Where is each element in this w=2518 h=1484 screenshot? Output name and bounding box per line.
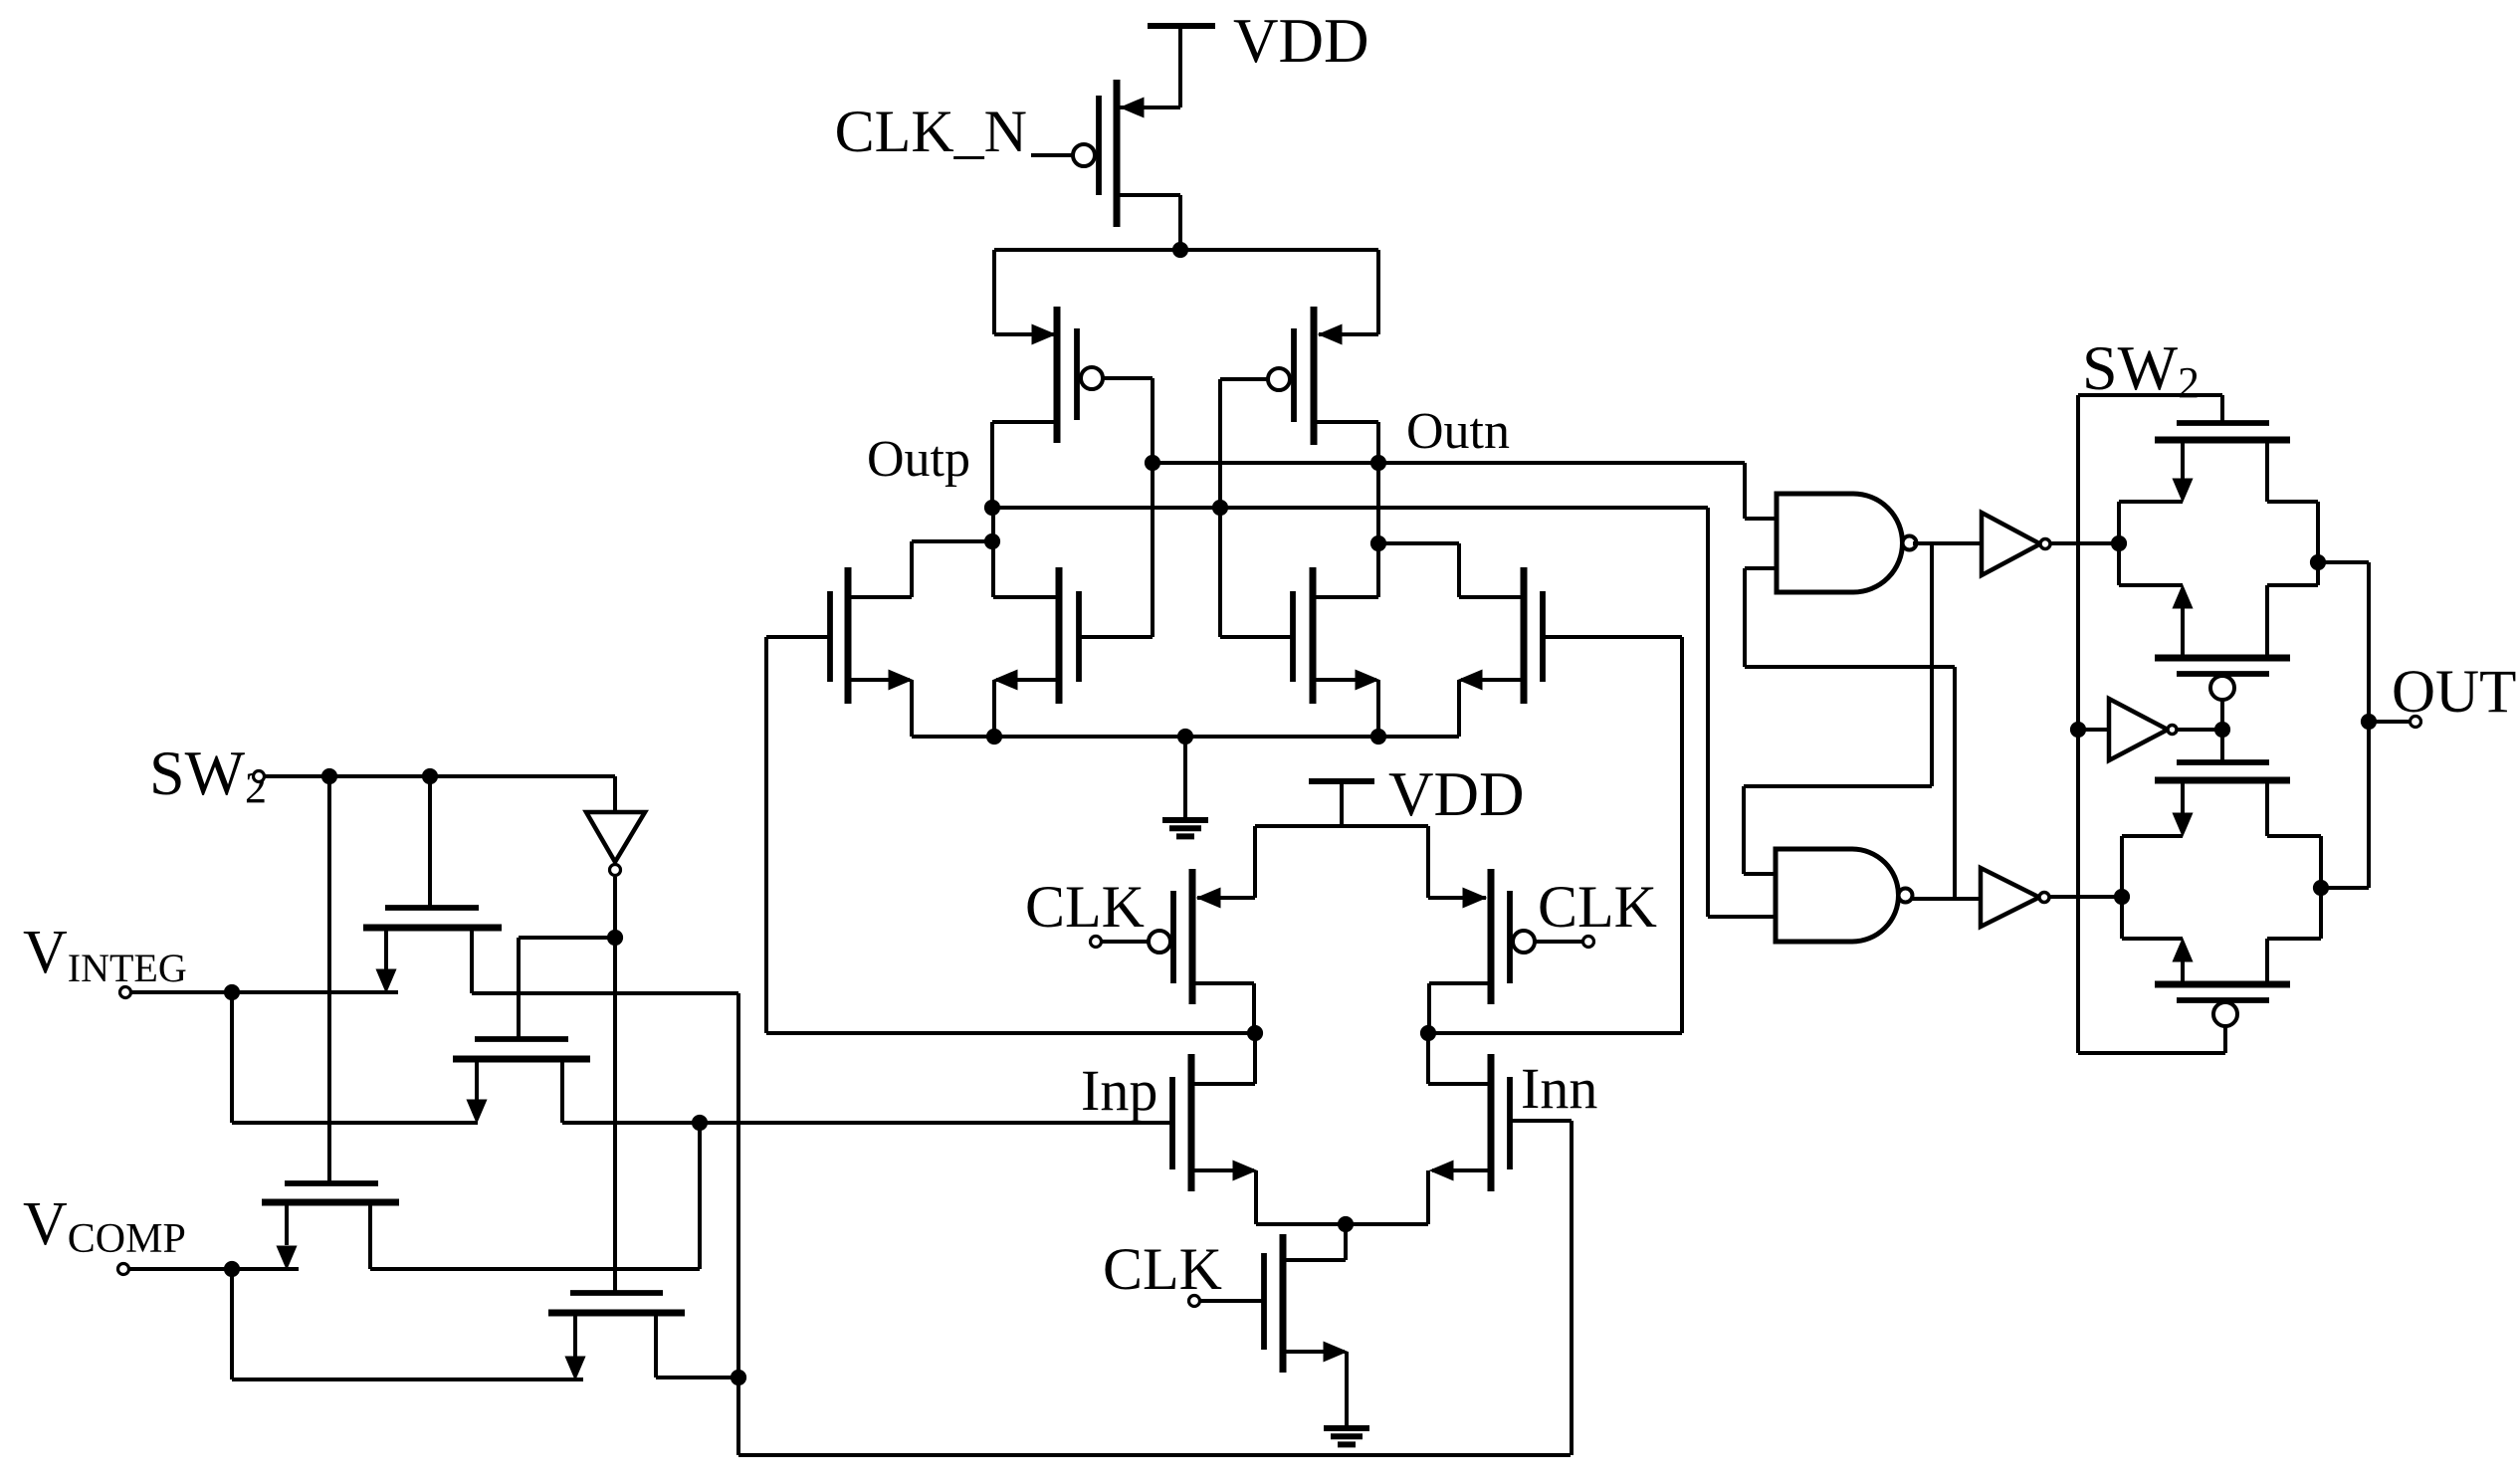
wire U3 out to T-gate 1	[2050, 541, 2119, 545]
node U6 output	[2214, 722, 2229, 737]
wire T-gate 1 out to OUT column	[2318, 560, 2369, 564]
label Inp	[1081, 1058, 1157, 1123]
svg-text:VDD: VDD	[1233, 6, 1369, 76]
wire U4 out to T-gate 2	[2049, 895, 2122, 899]
wire V_INTEG down to M14 source	[232, 992, 478, 1123]
wire OUT column	[2367, 562, 2371, 888]
wire OUT stub	[2369, 720, 2409, 724]
terminal OUT	[2411, 717, 2421, 728]
wire V_COMP down to M16 source	[232, 1269, 583, 1379]
wire Inp net	[562, 1121, 1172, 1125]
label VDD (top)	[1233, 6, 1369, 76]
wire U2 output	[1912, 897, 1981, 901]
label V_INTEG	[23, 919, 187, 990]
node Outn at M8 drain	[1370, 455, 1385, 470]
nand gate U1 (SR latch top)	[1777, 494, 1917, 592]
wire U1 out cross-couple to U2 input A	[1744, 543, 1932, 874]
label CLK_N	[835, 99, 1027, 164]
node SW2 to inverter U6	[2070, 722, 2085, 737]
ground (latch)	[1162, 737, 1208, 836]
svg-text:VDD: VDD	[1388, 759, 1525, 829]
transistor M13 NMOS (V_INTEG to Inn switch)	[363, 776, 738, 993]
node inverter out / T-gate spine	[607, 930, 622, 945]
node source rail left	[986, 729, 1001, 743]
inverter U4 (bottom buffer)	[1981, 868, 2049, 927]
transistor M9 PMOS (CLK_N precharge)	[1073, 80, 1180, 250]
label Inn	[1521, 1056, 1597, 1121]
ground (tail)	[1324, 1428, 1369, 1444]
wire SW2 bus	[265, 774, 615, 778]
label SW2 (left)	[149, 738, 267, 812]
svg-text:CLK_N: CLK_N	[835, 99, 1027, 164]
svg-text:CLK: CLK	[1538, 874, 1657, 940]
wire Outn rail	[1153, 461, 1745, 465]
transistor M15 NMOS (V_COMP to Inp switch)	[262, 776, 700, 1269]
terminal CLK tail	[1189, 1296, 1265, 1307]
svg-text:Outp: Outp	[867, 431, 970, 488]
transistor M5 NMOS (input Inp)	[1172, 1033, 1256, 1224]
node V_COMP branch	[224, 1261, 239, 1276]
wire M13 drain down / bottom bus to Inn gate	[738, 993, 1571, 1455]
node tail	[1338, 1216, 1353, 1231]
transistor M19 NMOS (T-gate 2 top)	[2122, 730, 2321, 836]
transistor M7 PMOS (cross-coupled left)	[992, 250, 1153, 508]
label CLK (left precharge)	[1025, 874, 1145, 940]
node T-gate 1 output	[2310, 502, 2325, 585]
node Inp net to M16 drain	[692, 1115, 707, 1130]
wire M7 gate to Outn column	[1151, 378, 1154, 637]
transistor M1 NMOS (cross-coupled left)	[993, 508, 1153, 737]
transistor M14 NMOS (V_INTEG to Inp switch)	[453, 1039, 590, 1123]
wire tail rail	[1256, 1222, 1428, 1226]
inverter U3 (top buffer)	[1982, 513, 2050, 575]
wire Inn gate	[1510, 1121, 1572, 1455]
node OUT	[2361, 714, 2376, 729]
terminal V_COMP	[118, 1264, 129, 1275]
label Outn	[1406, 403, 1510, 460]
node M4 drain join	[1370, 535, 1385, 550]
transistor M8 PMOS (cross-coupled right)	[1220, 250, 1378, 463]
wire U1 input B stub	[1745, 566, 1777, 570]
node V_INTEG branch	[224, 984, 239, 999]
wire Di- to M4 gate	[1428, 637, 1682, 1033]
wire V_INTEG	[131, 990, 398, 994]
power VDD symbol (top)	[1148, 26, 1215, 107]
node T-gate 2 input	[2114, 836, 2129, 939]
terminal CLK left	[1091, 937, 1150, 948]
transistor M4 NMOS (latch reset right)	[1378, 543, 1682, 737]
svg-text:CLK: CLK	[1025, 874, 1145, 940]
node Outp at M8 gate column	[1212, 500, 1227, 515]
svg-text:Inn: Inn	[1521, 1056, 1597, 1121]
power VDD symbol (input stage)	[1309, 781, 1374, 826]
node drain of M9 / top rail	[1172, 242, 1187, 257]
wire U1 output	[1913, 541, 1982, 545]
label OUT	[2392, 659, 2516, 726]
node T-gate 1 input	[2111, 502, 2126, 585]
terminal CLK right	[1535, 937, 1594, 948]
svg-text:OUT: OUT	[2392, 659, 2516, 726]
node Di- (right internal)	[1420, 1025, 1435, 1040]
wire Outp rail	[992, 506, 1708, 510]
transistor M17 NMOS (T-gate 1 top)	[2119, 395, 2318, 502]
node source rail right	[1370, 729, 1385, 743]
label VDD (input stage)	[1388, 759, 1525, 829]
transistor M6 NMOS (input Inn)	[1428, 1033, 1510, 1224]
wire VDD rail (input stage)	[1255, 824, 1428, 828]
terminal V_INTEG	[120, 987, 131, 998]
node source rail mid	[1177, 729, 1192, 743]
wire M8 gate to Outp column	[1218, 379, 1222, 637]
inverter U5 (SW2 invert, pointing down)	[586, 776, 645, 1293]
node M16 drain to bottom bus	[731, 1370, 745, 1384]
wire top rail	[994, 248, 1378, 252]
wire Di+ to M3 gate	[766, 637, 1255, 1033]
wire T-gate 2 out to OUT column	[2321, 886, 2369, 890]
transistor M10 PMOS (precharge left)	[1149, 826, 1255, 1033]
terminal SW2	[254, 771, 265, 782]
node SW2 to M15 gate	[321, 768, 336, 783]
wire CLK_N to gate of M9	[1031, 153, 1073, 157]
svg-text:Inp: Inp	[1081, 1058, 1157, 1123]
label CLK (tail)	[1103, 1236, 1222, 1302]
transistor M11 PMOS (precharge right)	[1428, 826, 1535, 1033]
node Outp at M7 drain	[984, 500, 999, 515]
node M3 drain join	[984, 533, 999, 548]
node T-gate 2 output	[2313, 836, 2328, 939]
label CLK (right precharge)	[1538, 874, 1657, 940]
node SW2 to M13 gate	[422, 768, 437, 783]
transistor M18 PMOS (T-gate 1 bottom)	[2119, 585, 2318, 730]
transistor M16 NMOS (V_COMP to Inn switch)	[548, 1293, 738, 1379]
wire Outn to U1 input A	[1745, 463, 1777, 519]
label SW2 (right)	[2082, 332, 2200, 407]
wire latch source rail	[912, 735, 1459, 739]
svg-text:CLK: CLK	[1103, 1236, 1222, 1302]
wire Outp to U2 input B	[1708, 508, 1776, 917]
label V_COMP	[23, 1190, 186, 1262]
transistor M2 NMOS (cross-coupled right)	[1220, 463, 1378, 737]
transistor M12 NMOS (tail current)	[1264, 1224, 1347, 1428]
label Outp	[867, 431, 970, 488]
svg-text:Outn: Outn	[1406, 403, 1510, 460]
wire SW2 right bus	[2078, 395, 2225, 1053]
transistor M20 PMOS (T-gate 2 bottom)	[2122, 939, 2321, 1053]
wire inverter out to M14 gate	[519, 938, 615, 1039]
inverter U6 (SW2 invert right)	[2082, 699, 2222, 760]
nand gate U2 (SR latch bottom)	[1776, 849, 1913, 942]
wire U2 out cross-couple to U1 input B	[1745, 568, 1955, 899]
node Outn at M7 gate column	[1145, 455, 1159, 470]
node Di+ (left internal)	[1247, 1025, 1262, 1040]
wire V_COMP	[129, 1267, 299, 1271]
transistor M3 NMOS (latch reset left)	[766, 541, 992, 737]
